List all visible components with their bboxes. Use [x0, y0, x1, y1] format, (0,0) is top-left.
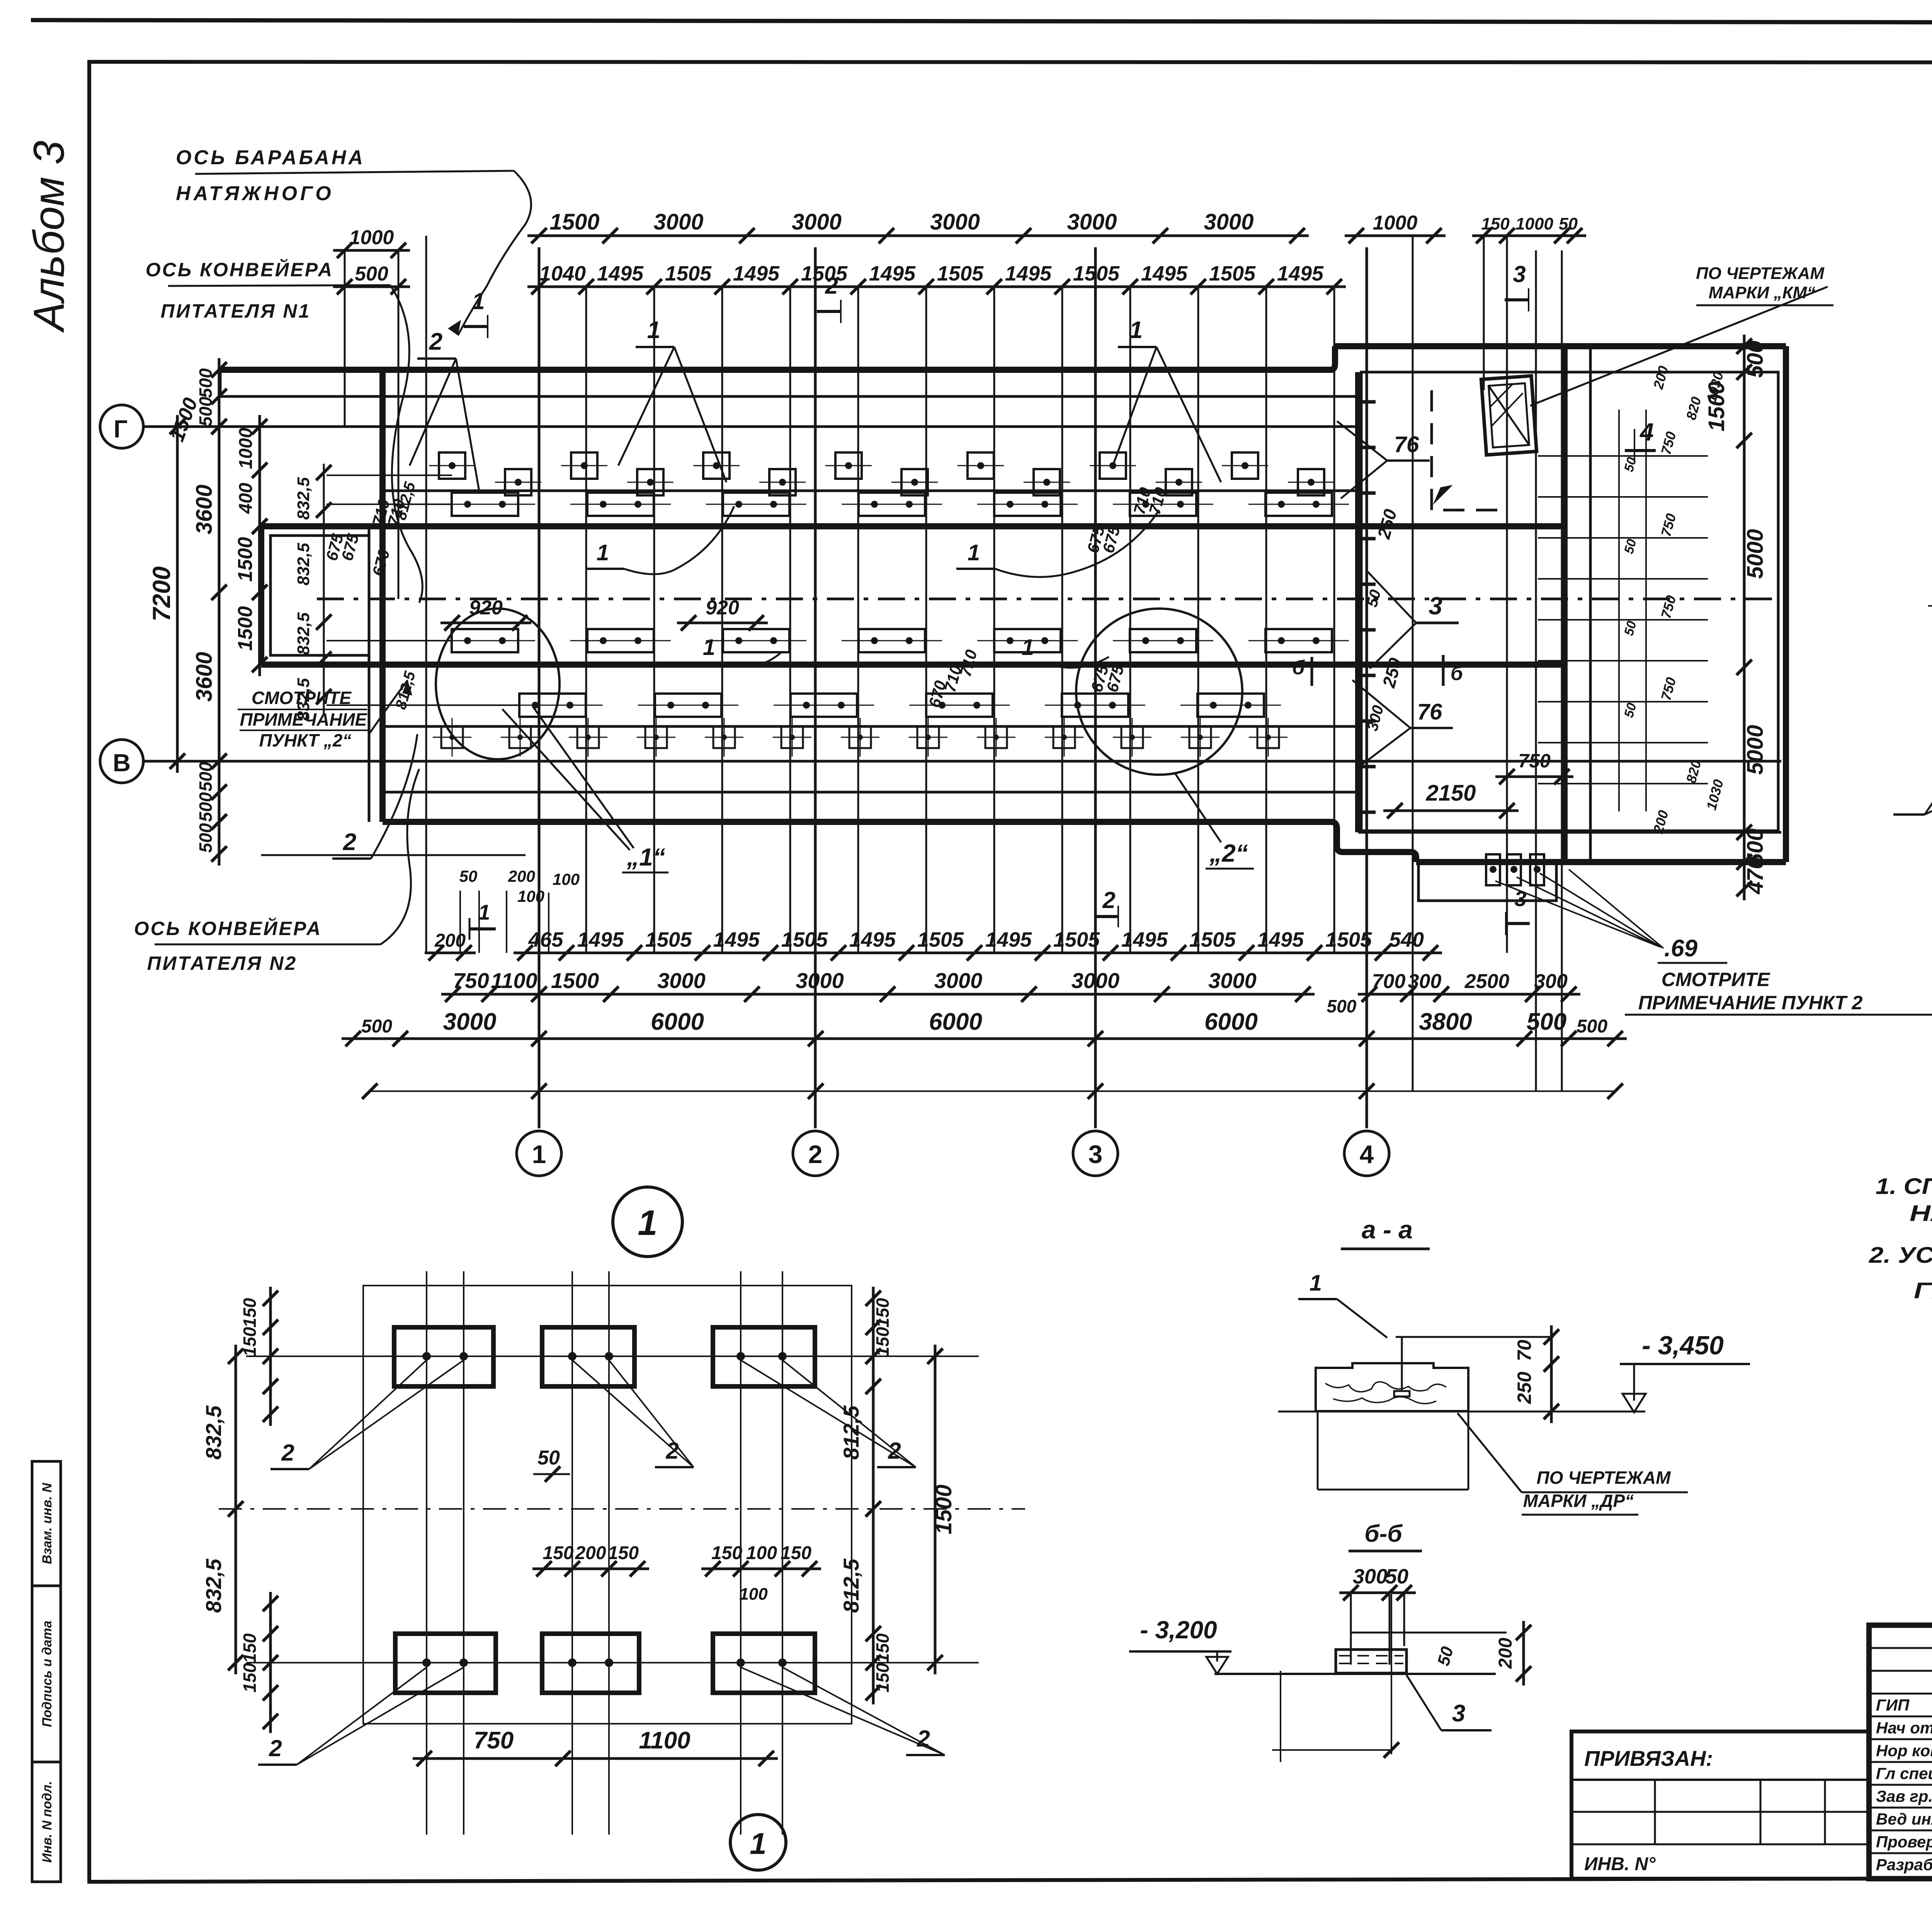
plan pit bottom wall — [1416, 859, 1786, 865]
dim 2150 — [1383, 810, 1519, 812]
svg-text:750: 750 — [453, 968, 489, 993]
section bb top line — [1351, 1632, 1507, 1634]
svg-text:4: 4 — [1360, 1140, 1374, 1168]
section bb leader 3 — [1406, 1675, 1492, 1730]
bottom cut mark 3 — [1506, 886, 1530, 935]
leader 1 top mid2 — [1113, 317, 1221, 482]
chain 832 line — [323, 464, 325, 715]
svg-text:1495: 1495 — [713, 928, 760, 951]
detail1 dim 832b — [235, 1497, 237, 1674]
svg-text:1495: 1495 — [849, 928, 896, 951]
section bb verticals — [1350, 1593, 1352, 1665]
dim row botA left — [425, 952, 476, 954]
annex inner rect — [270, 536, 369, 655]
dimension extension verticals — [585, 287, 587, 953]
detail1 dim 812a — [872, 1345, 875, 1520]
detail1 bot dim — [413, 1757, 778, 1760]
svg-text:3: 3 — [1088, 1140, 1103, 1168]
pit stair lines — [1538, 455, 1708, 457]
lower wide plates row2 — [519, 694, 586, 717]
pit inner left wall — [1355, 372, 1361, 832]
svg-text:300: 300 — [1534, 970, 1568, 993]
section aa leader 1 — [1298, 1270, 1387, 1338]
svg-text:50: 50 — [1559, 214, 1578, 233]
svg-text:700: 700 — [1372, 970, 1406, 993]
detail1 left dims low — [269, 1592, 272, 1733]
dim row top1 right — [1345, 235, 1446, 237]
dim col 500 top — [218, 358, 221, 438]
svg-text:3: 3 — [1429, 592, 1442, 620]
svg-text:500: 500 — [1577, 1016, 1607, 1037]
svg-text:1. СПЕЦИФИКАЦИЮ ЗАКЛАДНЫХ И: 1. СПЕЦИФИКАЦИЮ ЗАКЛАДНЫХ ИЗДЕЛИЙ СМОТРИ… — [1876, 1173, 1932, 1199]
svg-text:1: 1 — [478, 900, 490, 924]
plan left outer wall — [379, 370, 386, 822]
tunnel line 1880 — [383, 725, 1358, 728]
svg-text:1: 1 — [968, 540, 980, 565]
svg-text:150: 150 — [240, 1298, 260, 1328]
line below bottom wall — [261, 854, 526, 856]
left extension verticals — [344, 250, 346, 427]
svg-text:СМОТРИТЕ: СМОТРИТЕ — [1662, 969, 1770, 990]
section bb vdim — [1522, 1621, 1525, 1685]
svg-text:1500: 1500 — [551, 968, 599, 993]
leader 76 b — [1352, 680, 1453, 769]
svg-text:500: 500 — [196, 792, 216, 822]
svg-text:ОСЬ БАРАБАНА: ОСЬ БАРАБАНА — [176, 146, 365, 169]
svg-text:832,5: 832,5 — [201, 1558, 226, 1613]
svg-text:100: 100 — [517, 887, 544, 905]
pit lower leaders — [1495, 881, 1658, 946]
svg-text:150: 150 — [781, 1543, 811, 1563]
svg-text:1000: 1000 — [349, 226, 394, 249]
detail1 dim 832a — [235, 1345, 237, 1520]
section bb dims top — [1339, 1592, 1416, 1594]
detail1 right dims — [872, 1287, 875, 1398]
svg-text:1495: 1495 — [1141, 262, 1188, 285]
svg-text:150: 150 — [608, 1543, 639, 1563]
detail1 dim 812b — [872, 1497, 875, 1674]
pit compensator dashes — [1355, 400, 1376, 404]
detail1 top plates — [394, 1327, 493, 1386]
svg-text:1505: 1505 — [1209, 262, 1256, 285]
svg-text:3000: 3000 — [1071, 968, 1120, 993]
dim row botB right — [1358, 993, 1580, 996]
svg-text:2: 2 — [269, 1735, 282, 1761]
svg-text:ПРИВЯЗАН:: ПРИВЯЗАН: — [1584, 1746, 1713, 1770]
os konv2 leader — [381, 769, 419, 944]
section bb ground — [1214, 1673, 1496, 1675]
detail leader quote2 — [1175, 773, 1221, 842]
svg-text:150: 150 — [240, 1633, 260, 1663]
svg-text:150: 150 — [1481, 214, 1510, 233]
axis G line — [143, 425, 1358, 428]
svg-text:76: 76 — [1394, 432, 1419, 457]
privyazan header line — [1571, 1779, 1869, 1781]
leader 1 top mid — [618, 317, 726, 482]
leader 1 lower — [692, 635, 781, 667]
svg-text:1505: 1505 — [1189, 928, 1236, 951]
svg-text:1100: 1100 — [491, 968, 537, 993]
plan outer top wall left segment — [218, 367, 1331, 373]
svg-text:50: 50 — [1385, 1565, 1408, 1588]
svg-text:Подпись и дата: Подпись и дата — [40, 1621, 54, 1727]
svg-text:ПО ЧЕРТЕЖАМ: ПО ЧЕРТЕЖАМ — [1696, 264, 1825, 283]
svg-text:1495: 1495 — [985, 928, 1032, 951]
cut mark 1 top — [464, 288, 488, 338]
upper wide plates — [452, 493, 518, 516]
plan step top — [1331, 346, 1335, 370]
svg-text:1505: 1505 — [1053, 928, 1100, 951]
svg-text:- 3,200: - 3,200 — [1140, 1616, 1217, 1644]
tunnel line 2050 — [383, 791, 1358, 794]
svg-text:5000: 5000 — [1743, 529, 1768, 579]
svg-text:3000: 3000 — [1204, 209, 1253, 235]
svg-text:Взам. инв. N: Взам. инв. N — [40, 1482, 54, 1564]
svg-text:1040: 1040 — [539, 262, 586, 285]
annex left wall — [258, 526, 264, 665]
dim 750 pit — [1495, 776, 1573, 778]
svg-text:2: 2 — [825, 273, 838, 299]
detail1 leader 2 — [572, 1360, 694, 1467]
svg-text:1: 1 — [703, 635, 715, 660]
svg-text:1: 1 — [1310, 1270, 1322, 1296]
sheet top edge — [31, 20, 1932, 23]
svg-text:832,5: 832,5 — [294, 477, 313, 520]
section bb plate — [1336, 1650, 1406, 1673]
svg-text:250: 250 — [1514, 1372, 1535, 1405]
grid circle G — [100, 405, 143, 448]
svg-text:540: 540 — [1389, 928, 1424, 951]
svg-text:ГИДРОИЗОЛЯЦИИ НА ЛИСТАХ 36÷: ГИДРОИЗОЛЯЦИИ НА ЛИСТАХ 36÷38. — [1914, 1278, 1932, 1303]
pit lower plates — [1486, 854, 1500, 885]
svg-text:500: 500 — [361, 1016, 392, 1037]
svg-text:В: В — [113, 749, 131, 777]
plan pit right wall — [1783, 346, 1789, 862]
svg-text:4: 4 — [1639, 418, 1654, 446]
detail1 right dims low — [872, 1622, 875, 1704]
dim row top2 — [527, 286, 1346, 288]
svg-text:50: 50 — [537, 1447, 560, 1469]
title block grid — [1869, 1647, 1932, 1649]
svg-text:1505: 1505 — [917, 928, 964, 951]
svg-text:Зав гр.: Зав гр. — [1876, 1787, 1932, 1805]
section aa vdim — [1550, 1325, 1553, 1423]
svg-text:150: 150 — [872, 1633, 893, 1663]
svg-text:1000: 1000 — [1373, 212, 1418, 234]
axis V line — [143, 760, 1781, 763]
svg-text:2500: 2500 — [1464, 970, 1510, 993]
cut mark 3 top — [1505, 261, 1529, 311]
svg-text:150: 150 — [240, 1663, 260, 1692]
svg-text:Вед инж: Вед инж — [1876, 1810, 1932, 1828]
tunnel inner wall top — [261, 523, 1565, 529]
svg-text:150: 150 — [711, 1543, 742, 1563]
svg-text:1000: 1000 — [236, 428, 256, 469]
os konv1 leader — [390, 285, 422, 603]
detail1 leader 2 — [741, 1667, 945, 1755]
pit lower protrusion — [1418, 862, 1556, 901]
svg-text:6000: 6000 — [929, 1009, 982, 1035]
svg-text:70: 70 — [1514, 1340, 1535, 1361]
svg-text:1495: 1495 — [1257, 928, 1304, 951]
svg-text:2: 2 — [281, 1440, 294, 1466]
svg-text:1505: 1505 — [1073, 262, 1120, 285]
cut mark 2 top — [817, 273, 841, 323]
tunnel center line — [317, 598, 1781, 600]
dim col 500 bottom — [218, 750, 221, 833]
dim 920 a — [440, 622, 531, 624]
svg-text:2: 2 — [429, 328, 442, 355]
svg-text:1: 1 — [1129, 317, 1143, 344]
svg-text:Альбом 3: Альбом 3 — [25, 141, 73, 333]
chain 832 ext lines — [327, 474, 452, 476]
dim row botA — [514, 952, 1442, 954]
pit hatch rect — [1481, 376, 1536, 455]
pit hatch leader — [1530, 287, 1828, 406]
detail1 bound rect — [363, 1286, 852, 1724]
detail2 left square hline — [1928, 605, 1932, 607]
section b mark b — [1430, 655, 1464, 686]
dim 920 b — [677, 622, 768, 624]
svg-text:832,5: 832,5 — [294, 543, 313, 585]
svg-text:500: 500 — [1527, 1009, 1566, 1035]
svg-text:1495: 1495 — [1121, 928, 1168, 951]
section aa dr note — [1458, 1413, 1688, 1515]
svg-text:ОСЬ КОНВЕЙЕРА: ОСЬ КОНВЕЙЕРА — [134, 917, 322, 939]
detail1 bottom circle — [730, 1815, 786, 1870]
svg-text:832,5: 832,5 — [294, 678, 313, 721]
svg-text:1495: 1495 — [597, 262, 644, 285]
svg-text:б-б: б-б — [1364, 1520, 1403, 1547]
svg-text:Разраб.: Разраб. — [1876, 1855, 1932, 1874]
svg-text:1500: 1500 — [549, 209, 599, 235]
dim row botC left — [342, 1037, 412, 1040]
lower wide plates row1 — [452, 629, 518, 652]
grid circle 3 — [1073, 1131, 1118, 1176]
svg-text:150: 150 — [543, 1543, 573, 1563]
detail1 left dims — [269, 1287, 272, 1426]
detail1 mid axis — [219, 1508, 1025, 1510]
svg-text:1000: 1000 — [1515, 214, 1553, 233]
svg-text:200: 200 — [434, 930, 466, 951]
svg-text:ГИП: ГИП — [1876, 1696, 1910, 1714]
detail1 title circle — [613, 1187, 682, 1257]
svg-text:500: 500 — [355, 263, 388, 285]
svg-text:ИНВ. N°: ИНВ. N° — [1584, 1854, 1656, 1874]
leader 1 lower2 — [1010, 635, 1109, 668]
svg-text:б: б — [1451, 662, 1464, 685]
grid circle 1 — [517, 1131, 561, 1176]
os barabana text — [176, 146, 514, 205]
svg-text:50: 50 — [459, 867, 478, 885]
svg-text:150: 150 — [240, 1327, 260, 1357]
svg-text:6000: 6000 — [1204, 1009, 1258, 1035]
svg-text:1505: 1505 — [937, 262, 984, 285]
detail1 centerline bottom — [246, 1662, 979, 1663]
svg-text:3: 3 — [1513, 261, 1526, 287]
detail1 leader 2 — [741, 1360, 916, 1467]
dim col pit right — [1743, 335, 1746, 900]
dim row top1 — [527, 235, 1309, 237]
axis 1 line — [538, 247, 541, 1128]
svg-text:1: 1 — [532, 1140, 546, 1168]
svg-text:Провер: Провер — [1876, 1833, 1932, 1851]
svg-text:500: 500 — [196, 823, 216, 853]
svg-text:.69: .69 — [1664, 935, 1698, 962]
svg-text:200: 200 — [508, 867, 535, 885]
svg-text:1500: 1500 — [234, 606, 257, 651]
dim col 400-1000 — [259, 415, 261, 538]
svg-text:150: 150 — [872, 1298, 893, 1328]
dim col 500 bottom2 — [218, 810, 221, 866]
svg-text:2150: 2150 — [1425, 781, 1476, 806]
see note 2 text — [1625, 969, 1932, 1015]
upper plate squares — [439, 452, 465, 479]
plan left wall inner line — [368, 526, 371, 822]
dim row top1 left — [333, 249, 410, 252]
plan top wall left connector — [219, 370, 222, 396]
svg-text:76: 76 — [1417, 699, 1442, 724]
detail1 bottom plates — [395, 1634, 496, 1693]
section aa top line — [1396, 1336, 1554, 1338]
os konv text1 — [146, 259, 390, 322]
detail1 plate dots and verticals — [422, 1352, 431, 1361]
svg-text:3600: 3600 — [192, 485, 217, 534]
svg-text:832,5: 832,5 — [294, 612, 313, 655]
svg-text:Инв. N подл.: Инв. N подл. — [40, 1781, 54, 1863]
km note — [1696, 264, 1833, 305]
svg-text:ПИТАТЕЛЯ N1: ПИТАТЕЛЯ N1 — [161, 300, 311, 322]
svg-text:3600: 3600 — [192, 652, 217, 702]
svg-text:750: 750 — [1518, 750, 1551, 772]
svg-text:500: 500 — [1327, 996, 1357, 1016]
svg-text:ПРИМЕЧАНИЕ ПУНКТ 2: ПРИМЕЧАНИЕ ПУНКТ 2 — [1638, 992, 1863, 1014]
os konv text2 — [134, 917, 381, 974]
axis 3 line — [1094, 247, 1097, 1128]
svg-text:1505: 1505 — [781, 928, 828, 951]
svg-text:500: 500 — [1743, 340, 1768, 378]
svg-text:2: 2 — [1102, 887, 1115, 913]
plan pit outer top — [1335, 343, 1786, 349]
section aa texture — [1325, 1382, 1446, 1392]
svg-text:300: 300 — [1353, 1565, 1388, 1588]
leader 2 upper left — [410, 328, 479, 491]
detail circle 2 on plan — [1076, 609, 1242, 775]
svg-text:1500: 1500 — [1704, 381, 1729, 431]
svg-text:Г: Г — [114, 415, 128, 443]
svg-text:3000: 3000 — [796, 968, 844, 993]
svg-text:832,5: 832,5 — [201, 1405, 226, 1460]
svg-text:500: 500 — [196, 762, 216, 791]
pit stair verticals — [1618, 410, 1620, 811]
svg-text:3000: 3000 — [657, 968, 706, 993]
svg-text:НА ЛИСТАХ 29,30.: НА ЛИСТАХ 29,30. — [1910, 1201, 1932, 1226]
dim row botC right2 — [1557, 1037, 1627, 1040]
svg-text:3000: 3000 — [1067, 209, 1117, 235]
dim row botB — [441, 993, 1315, 996]
detail1 dims mid2 — [701, 1568, 821, 1570]
svg-text:3000: 3000 — [930, 209, 980, 235]
svg-text:1: 1 — [647, 317, 660, 344]
svg-text:500: 500 — [196, 368, 216, 398]
svg-text:6000: 6000 — [651, 1009, 704, 1035]
section aa below — [1317, 1411, 1319, 1490]
svg-text:б: б — [1292, 656, 1305, 679]
svg-text:ПУНКТ „2“: ПУНКТ „2“ — [259, 730, 352, 750]
privyazan cols — [1654, 1780, 1656, 1844]
section b mark a — [1292, 656, 1325, 686]
right extension verticals — [1412, 236, 1414, 1091]
svg-text:1500: 1500 — [234, 537, 257, 582]
svg-text:3000: 3000 — [1208, 968, 1257, 993]
margin box podpis — [32, 1586, 61, 1762]
bottom cut mark 1 — [469, 900, 496, 940]
cut mark 4 right — [1625, 418, 1656, 462]
svg-text:- 3,450: - 3,450 — [1642, 1331, 1724, 1360]
svg-text:465: 465 — [528, 928, 563, 951]
svg-text:1505: 1505 — [801, 262, 848, 285]
svg-text:1: 1 — [638, 1203, 657, 1243]
svg-text:а - а: а - а — [1362, 1215, 1413, 1244]
annex note text — [238, 688, 369, 750]
dim row botC — [389, 1037, 1580, 1040]
title block frame — [1869, 1625, 1932, 1879]
svg-text:3000: 3000 — [934, 968, 983, 993]
svg-text:1505: 1505 — [645, 928, 692, 951]
svg-text:2: 2 — [665, 1438, 679, 1464]
svg-text:НАТЯЖНОГО: НАТЯЖНОГО — [176, 182, 334, 205]
dim row top1 far right — [1472, 235, 1586, 237]
dim col 7200 — [176, 415, 179, 773]
grid circle 2 — [793, 1131, 838, 1176]
svg-text:100: 100 — [553, 870, 580, 888]
svg-text:470: 470 — [1743, 857, 1768, 895]
tunnel line 1270 — [383, 490, 1358, 492]
svg-text:150: 150 — [872, 1663, 893, 1692]
dim row top2 left — [333, 286, 410, 288]
svg-text:3000: 3000 — [653, 209, 703, 235]
privyazan rows — [1571, 1811, 1869, 1813]
svg-text:1: 1 — [750, 1827, 766, 1861]
svg-text:812,5: 812,5 — [839, 1558, 863, 1613]
svg-text:200: 200 — [575, 1543, 606, 1563]
margin box vzam — [32, 1461, 61, 1586]
tunnel inner wall bottom — [261, 662, 1565, 668]
grid circle V — [100, 740, 143, 783]
privyazan box — [1571, 1731, 1869, 1879]
margin box inv — [32, 1762, 61, 1882]
plan pit bottom inner — [1358, 831, 1781, 834]
pit inner outline — [1361, 372, 1778, 831]
dim col 1500 — [259, 515, 261, 676]
svg-text:7200: 7200 — [148, 566, 175, 621]
svg-text:Гл спец.: Гл спец. — [1876, 1764, 1932, 1782]
section bb center vline — [1391, 1594, 1392, 1754]
svg-text:ОСЬ КОНВЕЙЕРА: ОСЬ КОНВЕЙЕРА — [146, 259, 333, 281]
svg-text:750: 750 — [474, 1727, 514, 1754]
leader 76 a — [1337, 421, 1430, 498]
pit left wall — [1561, 346, 1568, 862]
detail1 centerline top — [246, 1355, 979, 1357]
svg-text:2: 2 — [343, 829, 356, 855]
svg-text:1495: 1495 — [1277, 262, 1324, 285]
plan outer bottom wall — [383, 819, 1331, 825]
svg-text:400: 400 — [236, 483, 256, 514]
svg-text:1495: 1495 — [733, 262, 780, 285]
axis 4 line — [1366, 247, 1368, 1128]
detail leader quote1 — [533, 707, 634, 848]
svg-text:5000: 5000 — [1743, 725, 1768, 775]
